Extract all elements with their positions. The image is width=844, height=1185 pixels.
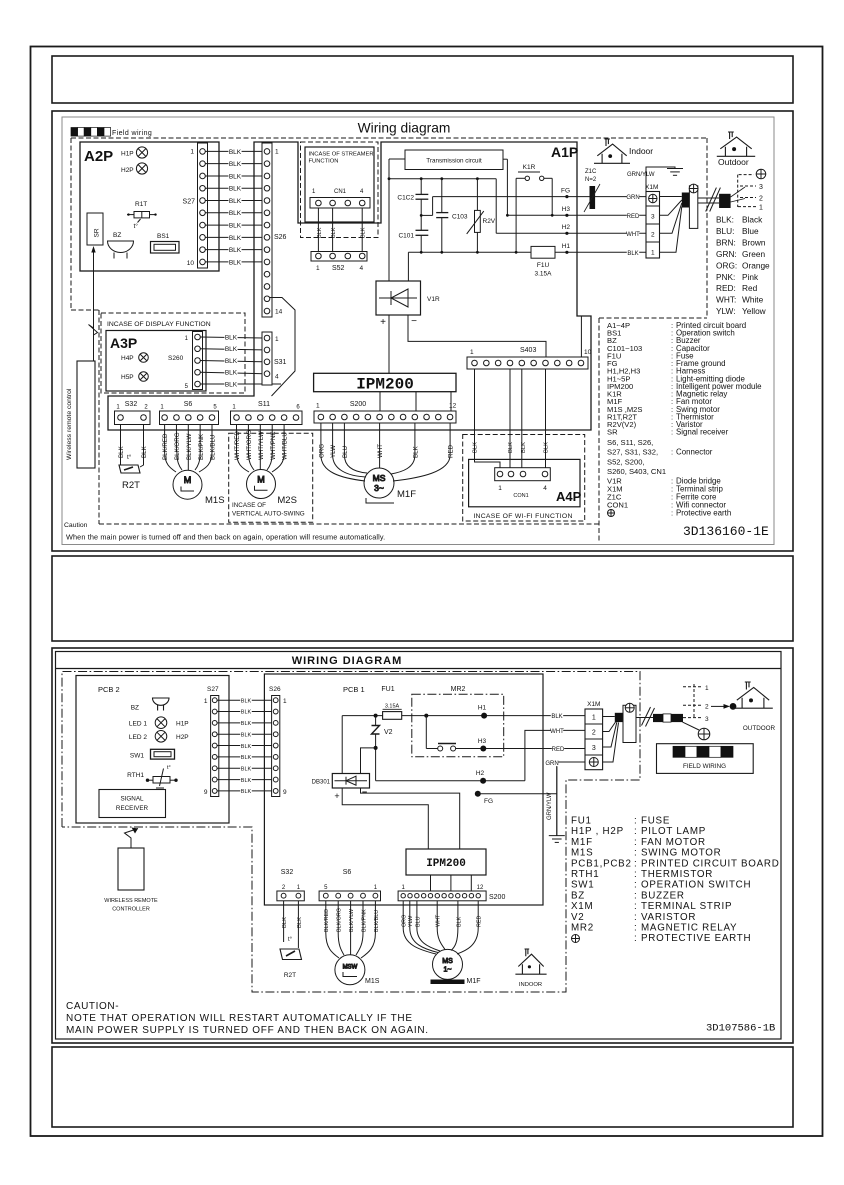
svg-text:1: 1 [283, 698, 287, 705]
thick bracket under M1F d2 [431, 980, 465, 985]
wire S27-5 to S26 [205, 200, 264, 202]
svg-text:Pink: Pink [742, 272, 759, 282]
svg-text:CONTROLLER: CONTROLLER [112, 907, 150, 913]
svg-text:S32: S32 [281, 869, 294, 876]
wire IPM200 to S200 x380 [379, 392, 381, 411]
connector S6 [160, 411, 219, 425]
svg-text:FIELD WIRING: FIELD WIRING [683, 763, 726, 770]
signal receiver box d2 [99, 790, 166, 818]
svg-text:1: 1 [275, 336, 279, 343]
svg-text::: : [634, 837, 637, 848]
X1M divider y224 [646, 223, 660, 225]
wire C1C2 top leg [420, 179, 422, 195]
svg-text:BLK: BLK [241, 778, 252, 784]
dashed terminal 1 d2 [683, 686, 703, 688]
label BLK display row 3 [224, 358, 237, 366]
wire CN1 x332 to S52 [332, 208, 334, 252]
svg-text:4: 4 [360, 265, 364, 272]
svg-text:BLK: BLK [229, 173, 242, 180]
svg-text:BLK: BLK [225, 358, 238, 365]
label BLK row 9 [228, 247, 241, 255]
svg-text:SWING MOTOR: SWING MOTOR [641, 848, 721, 859]
section box: wiring diagram 1 [52, 111, 793, 551]
LED H4P [139, 353, 149, 363]
svg-text:BLK: BLK [229, 235, 242, 242]
wire S403 pin10 up to notch [580, 316, 582, 357]
svg-text:BLK: BLK [241, 789, 252, 795]
wire S27-7 to S26 [205, 224, 264, 226]
wire S27-9 to S26 [205, 249, 264, 251]
label BLK row 10 [228, 259, 241, 267]
svg-text:1: 1 [204, 698, 208, 705]
relay K1R contact right [540, 176, 544, 180]
svg-text:BLK: BLK [241, 710, 252, 716]
label BLK row 1 [228, 148, 241, 156]
cable rod [689, 186, 697, 229]
wire node to FG riser [421, 214, 432, 216]
svg-text:4: 4 [543, 485, 547, 492]
svg-text:DB301: DB301 [312, 780, 331, 786]
field wiring checker d2 [673, 746, 733, 757]
wire K1R right leg to H3 [551, 178, 553, 215]
wire H2 riser to WHT [525, 730, 585, 780]
svg-text:Red: Red [742, 283, 758, 293]
svg-text:t°: t° [288, 937, 293, 943]
svg-text:S27: S27 [207, 686, 219, 693]
node V2 top [374, 714, 378, 718]
wireless remote controller box d2 [118, 848, 144, 890]
wire S403-1 to CON1-1 [475, 369, 501, 468]
wire DB301 minus to IPM200 [361, 788, 460, 849]
svg-text:WHT/RED: WHT/RED [234, 431, 241, 460]
wire bus drop to V1R [407, 252, 409, 281]
label BLK row 7 [228, 222, 241, 230]
wire S32-2 down d2 [283, 901, 285, 942]
wire S11-2 down [247, 425, 249, 453]
wire earth riser d2 [556, 762, 558, 836]
wire S27-S26 d2 row 2 [217, 711, 273, 713]
wire S403-7 to CON1-4 [545, 369, 547, 468]
connector S52 [311, 252, 367, 262]
svg-text:H3: H3 [478, 738, 487, 745]
wire S200 RED down [449, 423, 451, 455]
node top bus x477 [476, 177, 479, 180]
svg-text:1: 1 [592, 715, 596, 722]
label BLK row 8 [228, 234, 241, 242]
label BLK display row 1 [224, 334, 237, 342]
svg-text:CON1: CON1 [513, 493, 528, 499]
IPM200 box d2 [406, 849, 486, 875]
wire ORG to M1F [321, 455, 365, 481]
svg-text:WHT: WHT [626, 232, 640, 238]
svg-text:PCB1,PCB2: PCB1,PCB2 [571, 858, 632, 869]
svg-text:S6: S6 [184, 401, 193, 408]
label RED [627, 213, 640, 220]
printed circuit board PCB 1 box [264, 674, 543, 905]
svg-text:H2: H2 [476, 770, 485, 777]
dashed terminal 3 d2 [683, 717, 703, 719]
svg-text:S31: S31 [274, 359, 287, 366]
svg-text:Wireless remote control: Wireless remote control [66, 388, 73, 460]
label WHT [626, 231, 640, 238]
earth in X1M cell [649, 194, 657, 202]
wire S11-5 down [283, 425, 285, 453]
wire S200 ORG down d2 [402, 901, 404, 928]
cable blocks d2 [653, 714, 663, 722]
wire X1M 1 to cable [660, 207, 682, 253]
fan motor M1F d2 [433, 949, 463, 979]
wire S27-S26 d2 row 7 [217, 767, 273, 769]
cable block 1 [682, 193, 698, 208]
wire H1 line d2 [342, 715, 585, 717]
svg-text:FAN MOTOR: FAN MOTOR [641, 837, 706, 848]
RTH1 left dot [146, 779, 149, 782]
wire K1R right [544, 177, 552, 179]
label BLK d2 row 6 [240, 755, 252, 762]
svg-text:PNK:: PNK: [716, 272, 735, 282]
svg-text:INCASE OF DISPLAY FUNCTION: INCASE OF DISPLAY FUNCTION [107, 321, 211, 328]
wire X1M 3 to cable [660, 200, 682, 215]
svg-text:1: 1 [498, 485, 502, 492]
wire H1 bottom bus to X1M [408, 251, 646, 253]
svg-text:MR2: MR2 [451, 686, 466, 693]
svg-text:H2P: H2P [176, 734, 189, 741]
wire S27-1 to S26 [205, 150, 264, 152]
capacitor C101 [416, 230, 429, 235]
svg-text:−: − [411, 316, 417, 327]
node H1 bus x477 [476, 251, 479, 254]
svg-text:3.15A: 3.15A [535, 271, 553, 278]
wire X1M1 to cable d2 [603, 716, 615, 718]
svg-text:BLK: BLK [282, 917, 288, 928]
PCB A3P box [106, 331, 206, 392]
printed circuit board PCB 2 box [76, 676, 229, 824]
connector S26 d2 [272, 696, 280, 797]
svg-text:M1F: M1F [467, 978, 481, 985]
svg-text:C1C2: C1C2 [397, 195, 414, 202]
svg-text:S27, S31, S32,: S27, S31, S32, [607, 448, 658, 457]
svg-text:3: 3 [759, 184, 763, 191]
diode bridge DB301 box [332, 774, 369, 789]
field wiring legend box d2 [657, 744, 754, 774]
swing motor M1S d2 [335, 955, 365, 985]
svg-text::: : [671, 448, 673, 457]
svg-text:10: 10 [187, 260, 195, 267]
connector S27 (A2P) [198, 143, 208, 268]
wire X1M 2 to cable [660, 203, 682, 233]
svg-text:BLK: BLK [508, 442, 514, 453]
wire R2V top leg [476, 179, 478, 211]
svg-text:CON1: CON1 [607, 501, 628, 510]
svg-text:BLK: BLK [229, 210, 242, 217]
label WHT d2 [550, 728, 564, 735]
svg-text:WHT/ORG: WHT/ORG [246, 430, 253, 460]
operation switch BS1 inner [154, 244, 176, 250]
label BLK display row 5 [224, 381, 237, 389]
svg-text:N=2: N=2 [585, 177, 597, 183]
label GRN [626, 194, 639, 201]
svg-text:S11: S11 [258, 401, 270, 408]
wire bus to transmission [389, 158, 405, 160]
svg-text:RED:: RED: [716, 283, 736, 293]
wire C1C2 bottom leg [420, 199, 422, 230]
connector S26 (A1P) [262, 143, 272, 317]
svg-text:1: 1 [759, 205, 763, 212]
svg-text:BLK: BLK [361, 227, 367, 238]
wire S27-S26 d2 row 1 [217, 699, 273, 701]
wire S200 WHT down d2 [436, 901, 438, 928]
dashed terminal 2 [740, 197, 756, 199]
svg-text:S32: S32 [125, 401, 138, 408]
label BLK display row 2 [224, 346, 237, 354]
wire S11-1 down [236, 425, 238, 453]
varistor V2 [372, 726, 380, 735]
connector S27 d2 [211, 696, 219, 797]
earth on rod d2 [625, 703, 634, 712]
svg-text:F1U: F1U [537, 262, 550, 269]
fan wire 3 [731, 187, 745, 197]
ferrite core Z1C [590, 186, 596, 209]
svg-text:SIGNAL: SIGNAL [120, 796, 144, 803]
wire CN1 x362 to S52 [361, 208, 363, 252]
diode DB301 symbol [335, 776, 368, 785]
svg-text::: : [634, 923, 637, 934]
svg-text:WHT: WHT [550, 729, 564, 735]
swing motor M1S [173, 470, 202, 499]
svg-text:OPERATION SWITCH: OPERATION SWITCH [641, 880, 751, 891]
antenna zigzag d1 [89, 325, 98, 336]
svg-text:BLK: BLK [456, 916, 462, 927]
wire IPM200 to S200 x416 [415, 392, 417, 411]
wire S200 RED down d2 [477, 901, 479, 928]
MR2 contact right [451, 746, 456, 751]
wire dashed field boundary top [71, 137, 707, 139]
svg-text:When the main power is turned: When the main power is turned off and th… [66, 533, 385, 542]
empty box between diagrams [52, 556, 793, 641]
svg-text:3~: 3~ [374, 483, 384, 493]
thermistor R2T d2 [280, 949, 302, 960]
wire S27-S26 d2 row 4 [217, 733, 273, 735]
wire dashed boundary bottom [99, 523, 601, 525]
cable rod d2 [623, 705, 636, 742]
svg-text:WHT: WHT [436, 914, 442, 927]
node harness y252 [565, 251, 568, 254]
wire S6-4 down d2 [362, 901, 364, 933]
svg-text:BLK: BLK [225, 370, 238, 377]
svg-text:WHT:: WHT: [716, 295, 736, 305]
streamer function board box [305, 147, 374, 222]
title underline d2 [56, 668, 782, 670]
svg-text:THERMISTOR: THERMISTOR [641, 869, 713, 880]
svg-text:R1T: R1T [135, 201, 147, 208]
svg-text:BLK: BLK [627, 251, 638, 257]
svg-text:M: M [257, 474, 265, 484]
svg-text:BLK: BLK [229, 161, 242, 168]
label BLK d2 row 1 [240, 698, 252, 705]
wire H3 line to X1M [507, 214, 646, 216]
fuse FU1 body [383, 712, 402, 720]
wire X1M earth to ground [646, 167, 675, 191]
svg-text:M1S: M1S [571, 848, 593, 859]
connector S31 [262, 332, 272, 385]
fan motor M1F [364, 468, 394, 498]
svg-text:BLK/PNK: BLK/PNK [198, 433, 205, 460]
antenna zigzag d2 [125, 829, 139, 849]
dashed terminal 2 d2 [683, 704, 703, 706]
svg-text:BLK: BLK [141, 445, 148, 458]
varistor R2V body [475, 210, 481, 232]
svg-text:Green: Green [742, 249, 765, 259]
svg-text:BLK:: BLK: [716, 215, 734, 225]
label BLK d2 row 3 [240, 721, 252, 728]
wire S27-S26 d2 row 3 [217, 722, 273, 724]
label BLK row 2 [228, 161, 241, 169]
svg-text:S200: S200 [350, 401, 366, 408]
node V2 bottom [374, 746, 378, 750]
svg-text::: : [634, 880, 637, 891]
svg-text:INDOOR: INDOOR [519, 982, 542, 988]
thermistor R1T [127, 212, 157, 223]
underline 3.15A [383, 708, 402, 710]
label BLK d2 row 2 [240, 709, 252, 716]
earth cell X1M d2 [589, 758, 598, 767]
svg-text:A4P: A4P [556, 489, 582, 504]
svg-text:3: 3 [651, 214, 655, 221]
MR2 contact left [438, 746, 443, 751]
svg-text:SR: SR [94, 228, 101, 237]
arrowhead outdoor [724, 704, 731, 709]
svg-text:+: + [334, 791, 339, 801]
label BLK d2 row 4 [240, 732, 252, 739]
svg-text:YLW:: YLW: [716, 306, 736, 316]
dashed box incase of vertical auto-swing [229, 433, 313, 522]
wire jog S26 pin13 chassis [270, 298, 295, 397]
wire FG riser [432, 197, 434, 216]
wire cable mid 1 [698, 197, 719, 199]
svg-text:MR2: MR2 [571, 923, 594, 934]
wire from wireless remote to SR [93, 248, 95, 361]
label BLK d2 row 7 [240, 766, 252, 773]
wire to earth below cable [683, 722, 700, 730]
node top bus x389 [388, 177, 391, 180]
svg-text:FU1: FU1 [571, 816, 592, 827]
svg-text:BLK: BLK [241, 755, 252, 761]
svg-text:GRN: GRN [545, 761, 558, 767]
svg-text:H1: H1 [478, 705, 487, 712]
node C1C2/C101 [420, 214, 423, 217]
svg-text:BLK/ORG: BLK/ORG [337, 908, 343, 932]
svg-text:C103: C103 [452, 214, 468, 221]
svg-text:X1M: X1M [645, 184, 658, 191]
wire C103 top leg [441, 179, 443, 213]
RTH1 right dot [174, 779, 177, 782]
svg-text:PCB 1: PCB 1 [343, 685, 365, 694]
wire FG line to X1M [433, 196, 646, 198]
outdoor house icon d1 [717, 132, 755, 156]
svg-text:MS: MS [373, 473, 386, 483]
wire S27-10 to S26 [205, 261, 264, 263]
svg-text:BLK: BLK [473, 442, 479, 453]
svg-text:X1M: X1M [571, 901, 593, 912]
svg-text:10: 10 [584, 349, 592, 356]
wire S200 BLK down d2 [457, 901, 459, 928]
node H2 d2 [480, 778, 486, 784]
svg-text::: : [671, 509, 673, 518]
svg-text:M1S: M1S [205, 495, 225, 506]
wire C103 bottom leg [441, 218, 443, 253]
svg-text:Outdoor: Outdoor [718, 157, 749, 167]
svg-text:BLK: BLK [225, 346, 238, 353]
svg-text:A1P: A1P [551, 144, 578, 160]
svg-text:S6, S11, S26,: S6, S11, S26, [607, 438, 653, 447]
svg-text:BLK: BLK [225, 334, 238, 341]
wire S27-S26 d2 row 6 [217, 756, 273, 758]
label BLK row 3 [228, 173, 241, 181]
svg-text:FU1: FU1 [381, 686, 394, 693]
svg-text:RECEIVER: RECEIVER [116, 805, 149, 812]
svg-text:BLK: BLK [225, 381, 238, 388]
svg-text:Indoor: Indoor [629, 146, 653, 156]
cable break slashes d2 [642, 707, 655, 727]
wire V2 node to DB301 [361, 748, 376, 774]
svg-text:1: 1 [190, 149, 194, 156]
svg-text:BLK/RED: BLK/RED [324, 909, 330, 932]
svg-text:A2P: A2P [84, 148, 113, 165]
wire S200 BLU down [343, 423, 345, 455]
svg-text:NOTE THAT OPERATION WILL RESTA: NOTE THAT OPERATION WILL RESTART AUTOMAT… [66, 1013, 413, 1024]
svg-text:Black: Black [742, 215, 763, 225]
svg-text:ORG: ORG [319, 444, 326, 458]
svg-text:GRN: GRN [626, 195, 639, 201]
node outdoor dot [730, 703, 737, 710]
svg-text:FG: FG [484, 798, 493, 805]
svg-text:M2S: M2S [277, 495, 297, 506]
svg-text::: : [671, 428, 673, 437]
svg-text:VARISTOR: VARISTOR [641, 912, 696, 923]
svg-text:BLK: BLK [297, 917, 303, 928]
svg-text:PILOT LAMP: PILOT LAMP [641, 826, 706, 837]
svg-text::: : [634, 848, 637, 859]
node harness y215 [565, 214, 568, 217]
wire H1 to DB301 [341, 716, 343, 774]
svg-text:S403: S403 [520, 347, 536, 354]
wire S6-3 down d2 [350, 901, 352, 933]
svg-text:Protective earth: Protective earth [676, 509, 731, 518]
svg-text:BZ: BZ [113, 232, 121, 239]
relay K1R bar [518, 171, 540, 173]
label BLK row 5 [228, 198, 241, 206]
node top bus x421 [420, 177, 423, 180]
svg-text:BLK: BLK [229, 247, 242, 254]
svg-text:GRN/YLW: GRN/YLW [547, 792, 553, 820]
connector S200 [314, 411, 456, 423]
svg-text:1: 1 [651, 250, 655, 257]
wire DB301 plus to IPM200 [342, 788, 428, 849]
wire X1M3 to cable d2 [603, 722, 617, 747]
wire S6-1 down d2 [325, 901, 327, 933]
outdoor house d2 [733, 682, 773, 708]
wire IPM200 to S200 x451 [450, 392, 452, 411]
svg-text:BZ: BZ [571, 890, 585, 901]
svg-text:9: 9 [283, 789, 287, 796]
node H1 bus x441 [440, 251, 443, 254]
svg-text:A3P: A3P [110, 335, 137, 351]
svg-text:12: 12 [449, 403, 457, 410]
svg-text:LED 2: LED 2 [129, 734, 147, 741]
connector CN1 strip [310, 198, 370, 209]
magnetic relay MR2 dash-dot box [412, 694, 504, 757]
inner frame diagram 1 [62, 117, 774, 545]
